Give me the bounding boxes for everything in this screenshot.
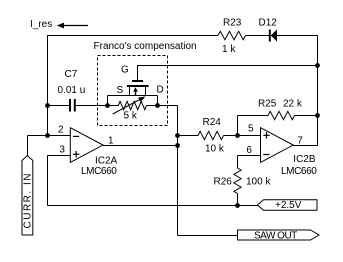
svg-text:D12: D12	[259, 17, 278, 28]
svg-text:7: 7	[297, 136, 303, 147]
wire R26 top lead	[237, 156, 239, 169]
junction node 9	[315, 113, 320, 118]
svg-text:LMC660: LMC660	[81, 166, 117, 177]
svg-text:R23: R23	[223, 17, 242, 28]
svg-text:22 k: 22 k	[283, 98, 303, 109]
transistor drain stub	[145, 87, 147, 96]
resistor R25	[268, 111, 295, 119]
port CURR. IN	[22, 156, 33, 236]
wire pin3 input	[48, 155, 71, 157]
svg-text:IC2B: IC2B	[293, 154, 316, 165]
transistor source stub	[129, 87, 131, 96]
wire R25 right lead	[295, 115, 318, 117]
drain down lead	[157, 96, 159, 106]
svg-text:10 k: 10 k	[205, 144, 225, 155]
wire R24 left lead	[178, 135, 199, 137]
wire R25 left drop	[237, 116, 239, 136]
svg-text:3: 3	[59, 144, 65, 155]
svg-text:Franco's compensation: Franco's compensation	[94, 41, 197, 52]
wire IC2A output	[103, 145, 178, 147]
svg-text:IC2A: IC2A	[95, 155, 118, 166]
svg-text:SAW OUT: SAW OUT	[254, 230, 297, 241]
wire R25 left lead	[238, 115, 269, 117]
resistor R24	[198, 131, 224, 139]
junction node 8	[315, 63, 320, 68]
svg-text:R25: R25	[258, 98, 277, 109]
Franco's compensation box	[98, 56, 168, 126]
svg-text:LMC660: LMC660	[281, 166, 317, 177]
wire R24 right lead / pin5	[224, 135, 261, 137]
svg-text:0.01 u: 0.01 u	[58, 85, 86, 96]
wire D node vertical down	[177, 106, 179, 236]
wire C7 left lead	[48, 105, 70, 107]
wire right vertical bus	[317, 36, 319, 146]
wire R26 bottom lead	[237, 194, 239, 206]
wire gate to right bus	[138, 65, 318, 67]
svg-text:1: 1	[108, 136, 114, 147]
diode D12	[270, 30, 277, 42]
wire pin2 input	[28, 135, 71, 137]
wire to SAW OUT	[178, 235, 238, 237]
wire IC2B output pin7	[293, 145, 317, 147]
wire pot right lead	[147, 105, 178, 107]
source down lead	[107, 96, 109, 106]
op-amp IC2A	[70, 128, 103, 163]
svg-text:I_res: I_res	[30, 19, 52, 30]
potentiometer 5 k	[118, 101, 146, 109]
wire CURR IN drop	[27, 136, 29, 157]
junction node 10	[235, 203, 240, 208]
junction node 4	[155, 103, 160, 108]
svg-text:G: G	[121, 64, 129, 75]
svg-text:+2.5V: +2.5V	[275, 200, 302, 211]
wire left bus vertical	[47, 35, 49, 136]
svg-text:R26: R26	[214, 177, 233, 188]
svg-text:CURR. IN: CURR. IN	[23, 172, 34, 228]
transistor channel bar	[127, 85, 149, 87]
svg-text:S: S	[117, 85, 124, 96]
svg-text:1 k: 1 k	[222, 44, 236, 55]
resistor R26	[234, 168, 241, 194]
resistor R23	[218, 31, 246, 39]
port SAW OUT	[238, 230, 320, 240]
transistor gate bar	[132, 80, 143, 82]
junction node 6	[175, 143, 180, 148]
svg-text:5 k: 5 k	[124, 111, 138, 122]
junction node 1	[45, 103, 50, 108]
svg-text:6: 6	[246, 145, 252, 156]
svg-text:2: 2	[58, 125, 64, 136]
junction node 2	[45, 133, 50, 138]
svg-text:R24: R24	[203, 117, 222, 128]
port +2.5V	[258, 200, 318, 210]
wire D12 to right corner	[277, 35, 318, 37]
transistor bottom bar	[108, 95, 158, 97]
junction node 5	[175, 133, 180, 138]
current direction arrow	[57, 23, 88, 29]
svg-text:D: D	[157, 85, 164, 96]
wire C7 to node S	[76, 105, 119, 107]
wire +2.5V rail	[48, 205, 258, 207]
wire pin3 vertical	[47, 156, 49, 206]
junction node 7	[235, 133, 240, 138]
wire R23 to D12	[246, 35, 270, 37]
op-amp IC2B	[261, 128, 294, 163]
junction node 3	[105, 103, 110, 108]
svg-text:100 k: 100 k	[246, 177, 271, 188]
bulk arrow	[133, 87, 138, 95]
capacitor C7	[70, 99, 75, 112]
wire gate vertical	[137, 65, 139, 81]
wire pin6 input	[238, 155, 261, 157]
svg-text:C7: C7	[65, 69, 78, 80]
wire top rail left segment	[48, 35, 219, 37]
svg-text:5: 5	[248, 124, 254, 135]
